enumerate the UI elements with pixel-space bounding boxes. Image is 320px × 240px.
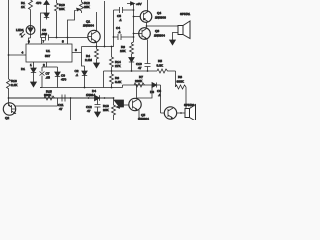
svg-text:2N3904: 2N3904	[83, 24, 94, 28]
svg-text:2.2K: 2.2K	[11, 83, 18, 87]
transistor Q3	[139, 28, 151, 40]
wire c4-col down	[112, 37, 114, 57]
bottom pins: diode D1	[33, 62, 35, 68]
wire rail to Q2	[8, 98, 10, 103]
capacitor C6	[46, 35, 49, 41]
wire r5 corner	[175, 71, 177, 87]
svg-text:SPKR2: SPKR2	[184, 103, 194, 107]
node q5 collector	[136, 84, 138, 86]
svg-text:Q4: Q4	[157, 11, 161, 15]
svg-text:220K: 220K	[135, 79, 143, 83]
wire row h11 R7	[123, 84, 153, 86]
node d4 right	[104, 97, 106, 99]
svg-text:6: 6	[28, 40, 30, 44]
wire long vertical mid	[104, 1, 106, 47]
svg-text:D1: D1	[21, 67, 25, 71]
wire pin3	[72, 47, 85, 67]
resistor R8	[176, 85, 187, 89]
svg-text:1: 1	[30, 63, 32, 67]
ground spk1	[170, 40, 176, 45]
svg-text:680K: 680K	[44, 93, 52, 97]
svg-text:U1: U1	[46, 49, 50, 53]
node d6 h9	[131, 70, 133, 72]
wire row h-gnd	[40, 87, 123, 89]
resistor R4	[95, 47, 99, 63]
svg-text:20K: 20K	[103, 108, 109, 112]
svg-text:5: 5	[62, 40, 64, 44]
node spk1	[146, 25, 148, 27]
transistor Q5	[129, 98, 141, 110]
wire base row	[41, 37, 46, 39]
wire h13 elbow	[57, 98, 59, 106]
svg-text:1N914: 1N914	[86, 93, 95, 97]
wire q5c link	[137, 85, 152, 98]
capacitor C4	[114, 34, 134, 40]
resistor R1	[29, 0, 33, 10]
power +9V arrow B	[127, 4, 134, 11]
wire c11 down	[70, 98, 72, 120]
node c10 h9	[147, 70, 149, 72]
diode D5	[44, 13, 49, 20]
wire emitter row	[82, 46, 113, 48]
wire row h12	[9, 97, 114, 99]
resistor R14	[110, 57, 114, 71]
node r14 h9	[111, 70, 113, 72]
wire R1 to LED	[30, 10, 32, 26]
wire top-left L	[41, 13, 47, 38]
wire row h9	[104, 70, 158, 72]
wire q4 base	[134, 16, 141, 18]
ground D1	[31, 82, 37, 87]
node c11	[70, 97, 72, 99]
potentiometer R12	[80, 0, 84, 13]
LED1	[26, 26, 35, 35]
node c5 right	[133, 9, 135, 11]
svg-text:10K: 10K	[120, 49, 126, 53]
node base-R10	[56, 37, 58, 39]
svg-text:R5: R5	[158, 59, 162, 63]
node rail pin4	[8, 54, 10, 56]
ground C12	[95, 112, 101, 117]
resistor R5	[157, 69, 176, 73]
wire q5 base	[124, 104, 130, 106]
svg-text:2N3904: 2N3904	[154, 34, 165, 38]
node rail h12	[8, 97, 10, 99]
node r6 bottom	[111, 87, 113, 89]
speaker SPKR2	[185, 109, 190, 118]
wire q3 emitter down	[147, 39, 148, 57]
ground R4	[94, 63, 100, 68]
svg-text:470: 470	[61, 78, 66, 82]
wire r8 down to spk2	[185, 87, 187, 108]
wire LED to pin6	[30, 34, 32, 38]
wire R10 down	[56, 11, 58, 38]
svg-text:47: 47	[138, 66, 142, 70]
svg-text:.05: .05	[46, 76, 51, 80]
svg-text:680K: 680K	[177, 80, 185, 84]
svg-text:2: 2	[43, 63, 45, 67]
resistor R6	[110, 71, 114, 88]
svg-text:1K: 1K	[21, 5, 26, 9]
node h6 right	[111, 46, 113, 48]
wire speaker1 feed	[147, 25, 179, 27]
svg-text:.1: .1	[76, 73, 79, 77]
capacitor C5	[114, 7, 134, 13]
wire q5 emitter	[138, 110, 140, 120]
speaker SPKR1	[178, 26, 183, 35]
wire q4-q3	[146, 22, 148, 28]
wire q6 to spk2	[177, 112, 186, 114]
svg-text:.002: .002	[41, 32, 47, 36]
wire c5 left down	[113, 10, 115, 37]
svg-text:.1: .1	[158, 93, 161, 97]
svg-text:3: 3	[75, 48, 77, 52]
svg-text:7: 7	[43, 40, 45, 44]
wire pin7 stub	[41, 38, 43, 45]
svg-text:3.3K: 3.3K	[115, 80, 122, 84]
capacitor C2	[84, 66, 86, 71]
svg-text:25K: 25K	[84, 5, 90, 9]
wire q6 base	[161, 112, 165, 114]
transistor Q2	[3, 103, 15, 115]
svg-text:47: 47	[59, 107, 63, 111]
wire Q1 collector	[96, 12, 98, 31]
svg-text:470: 470	[36, 1, 41, 5]
resistor R15	[44, 96, 55, 100]
svg-text:Q2: Q2	[5, 116, 9, 120]
resistor R7	[134, 83, 145, 87]
wire h11 elbow	[122, 85, 124, 88]
transistor Q4	[140, 11, 152, 23]
capacitor C11	[62, 95, 65, 102]
power +9V arrow A	[44, 1, 49, 14]
resistor R10	[55, 0, 59, 11]
wire r13 wiper	[114, 100, 124, 108]
svg-text:10K: 10K	[59, 7, 65, 11]
svg-text:LED1: LED1	[16, 28, 24, 32]
diode D2	[55, 72, 60, 88]
capacitor C12	[95, 98, 101, 112]
wire q2 base row	[16, 105, 58, 107]
svg-text:3.3K: 3.3K	[157, 64, 164, 68]
wire b-col	[133, 10, 135, 42]
svg-text:R8: R8	[178, 75, 182, 79]
wire pot wiper	[68, 11, 75, 45]
svg-text:SPKR1: SPKR1	[180, 12, 190, 16]
capacitor C7	[40, 72, 45, 88]
node q1e	[96, 46, 98, 48]
wire pin4	[9, 54, 27, 56]
node c4 right	[133, 36, 135, 38]
wire pin2 tee	[42, 62, 58, 72]
transistor Q6	[164, 107, 176, 119]
svg-text:4: 4	[22, 51, 24, 55]
node q3 base	[133, 33, 135, 35]
svg-text:47: 47	[87, 109, 91, 113]
node r13 top	[113, 97, 115, 99]
svg-text:567: 567	[45, 54, 50, 58]
svg-text:.1: .1	[118, 30, 121, 34]
svg-text:.1: .1	[119, 18, 122, 22]
diode D3	[152, 83, 161, 88]
svg-text:Q3: Q3	[155, 29, 159, 33]
node c2	[84, 87, 86, 89]
svg-text:2N3904: 2N3904	[138, 117, 149, 120]
wire d3 down to q6	[160, 85, 162, 113]
wire Q1 emitter	[96, 42, 98, 47]
node q6 spk2	[180, 112, 182, 114]
transistor Q1	[88, 30, 100, 42]
node d4 left	[88, 97, 90, 99]
potentiometer R13	[112, 98, 116, 120]
capacitor C10	[145, 57, 151, 71]
wire q5 collector	[136, 85, 138, 99]
diode D6	[129, 58, 134, 72]
node q4 base	[133, 16, 135, 18]
IC U1 567	[26, 44, 72, 62]
node midv	[104, 46, 106, 48]
wire left rail	[8, 0, 10, 79]
node c4 left	[113, 36, 115, 38]
node wiper-base crossing	[67, 37, 69, 39]
resistor R9	[130, 42, 134, 58]
svg-text:2N3906: 2N3906	[155, 16, 166, 20]
svg-text:2.2M: 2.2M	[85, 58, 92, 62]
svg-text:+9V: +9V	[136, 2, 143, 6]
wire spk1 bottom	[173, 33, 179, 41]
diode D4	[95, 95, 100, 100]
wire mid col down	[103, 71, 105, 88]
resistor R16	[7, 79, 11, 98]
svg-text:27K: 27K	[115, 64, 121, 68]
wire q4 collector	[147, 0, 149, 11]
